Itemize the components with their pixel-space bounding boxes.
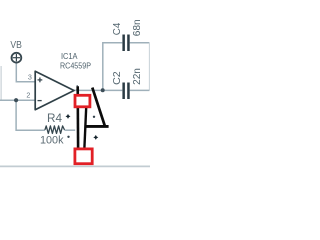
wire junction to R4 <box>16 100 45 130</box>
annotation pennant diagonal <box>92 88 105 127</box>
junction node output <box>101 88 105 92</box>
resistor R4 zigzag <box>45 126 65 133</box>
wire C4 right <box>130 42 150 44</box>
svg-text:RC4559P: RC4559P <box>60 60 91 70</box>
supply flag VB <box>12 53 22 63</box>
svg-text:68n: 68n <box>131 19 143 36</box>
red box top (selection) <box>75 95 90 107</box>
red box bottom (selection) <box>75 149 92 164</box>
op-amp U IC1A triangle <box>35 71 74 110</box>
wire junction to C2 <box>103 89 123 91</box>
wire C2 right <box>130 89 150 91</box>
mark diamond lower-right <box>93 135 98 140</box>
svg-text:C4: C4 <box>111 22 123 35</box>
annotation pennant base <box>86 125 108 128</box>
wire right vertical <box>148 43 150 91</box>
junction node pin2/VB <box>14 98 18 102</box>
wire output node up and to C4 <box>103 43 123 91</box>
wire R4 right stub <box>64 129 75 131</box>
annotation stroke pole right <box>84 94 86 148</box>
svg-text:R4: R4 <box>47 113 63 125</box>
capacitor C4 plates <box>122 35 125 52</box>
op-amp minus input mark <box>38 100 42 102</box>
mark dot lower-left <box>67 136 69 138</box>
bottom frame line <box>0 165 150 167</box>
mark dot upper-right <box>93 116 95 118</box>
svg-text:100k: 100k <box>40 135 64 147</box>
annotation stroke pole left <box>76 86 79 148</box>
wire left vertical feedback stub <box>0 66 2 100</box>
svg-text:C2: C2 <box>111 71 123 85</box>
svg-text:2: 2 <box>26 90 30 99</box>
mark diamond upper-left <box>66 114 71 119</box>
svg-text:VB: VB <box>10 39 22 51</box>
wire pin2 horizontal <box>0 99 36 101</box>
op-amp plus input mark <box>38 78 43 83</box>
svg-text:22n: 22n <box>131 68 143 85</box>
capacitor C2 plates <box>122 83 125 100</box>
wire opamp output to junction <box>73 89 103 91</box>
svg-text:3: 3 <box>28 72 32 81</box>
wire VB to pin3 <box>16 63 35 82</box>
